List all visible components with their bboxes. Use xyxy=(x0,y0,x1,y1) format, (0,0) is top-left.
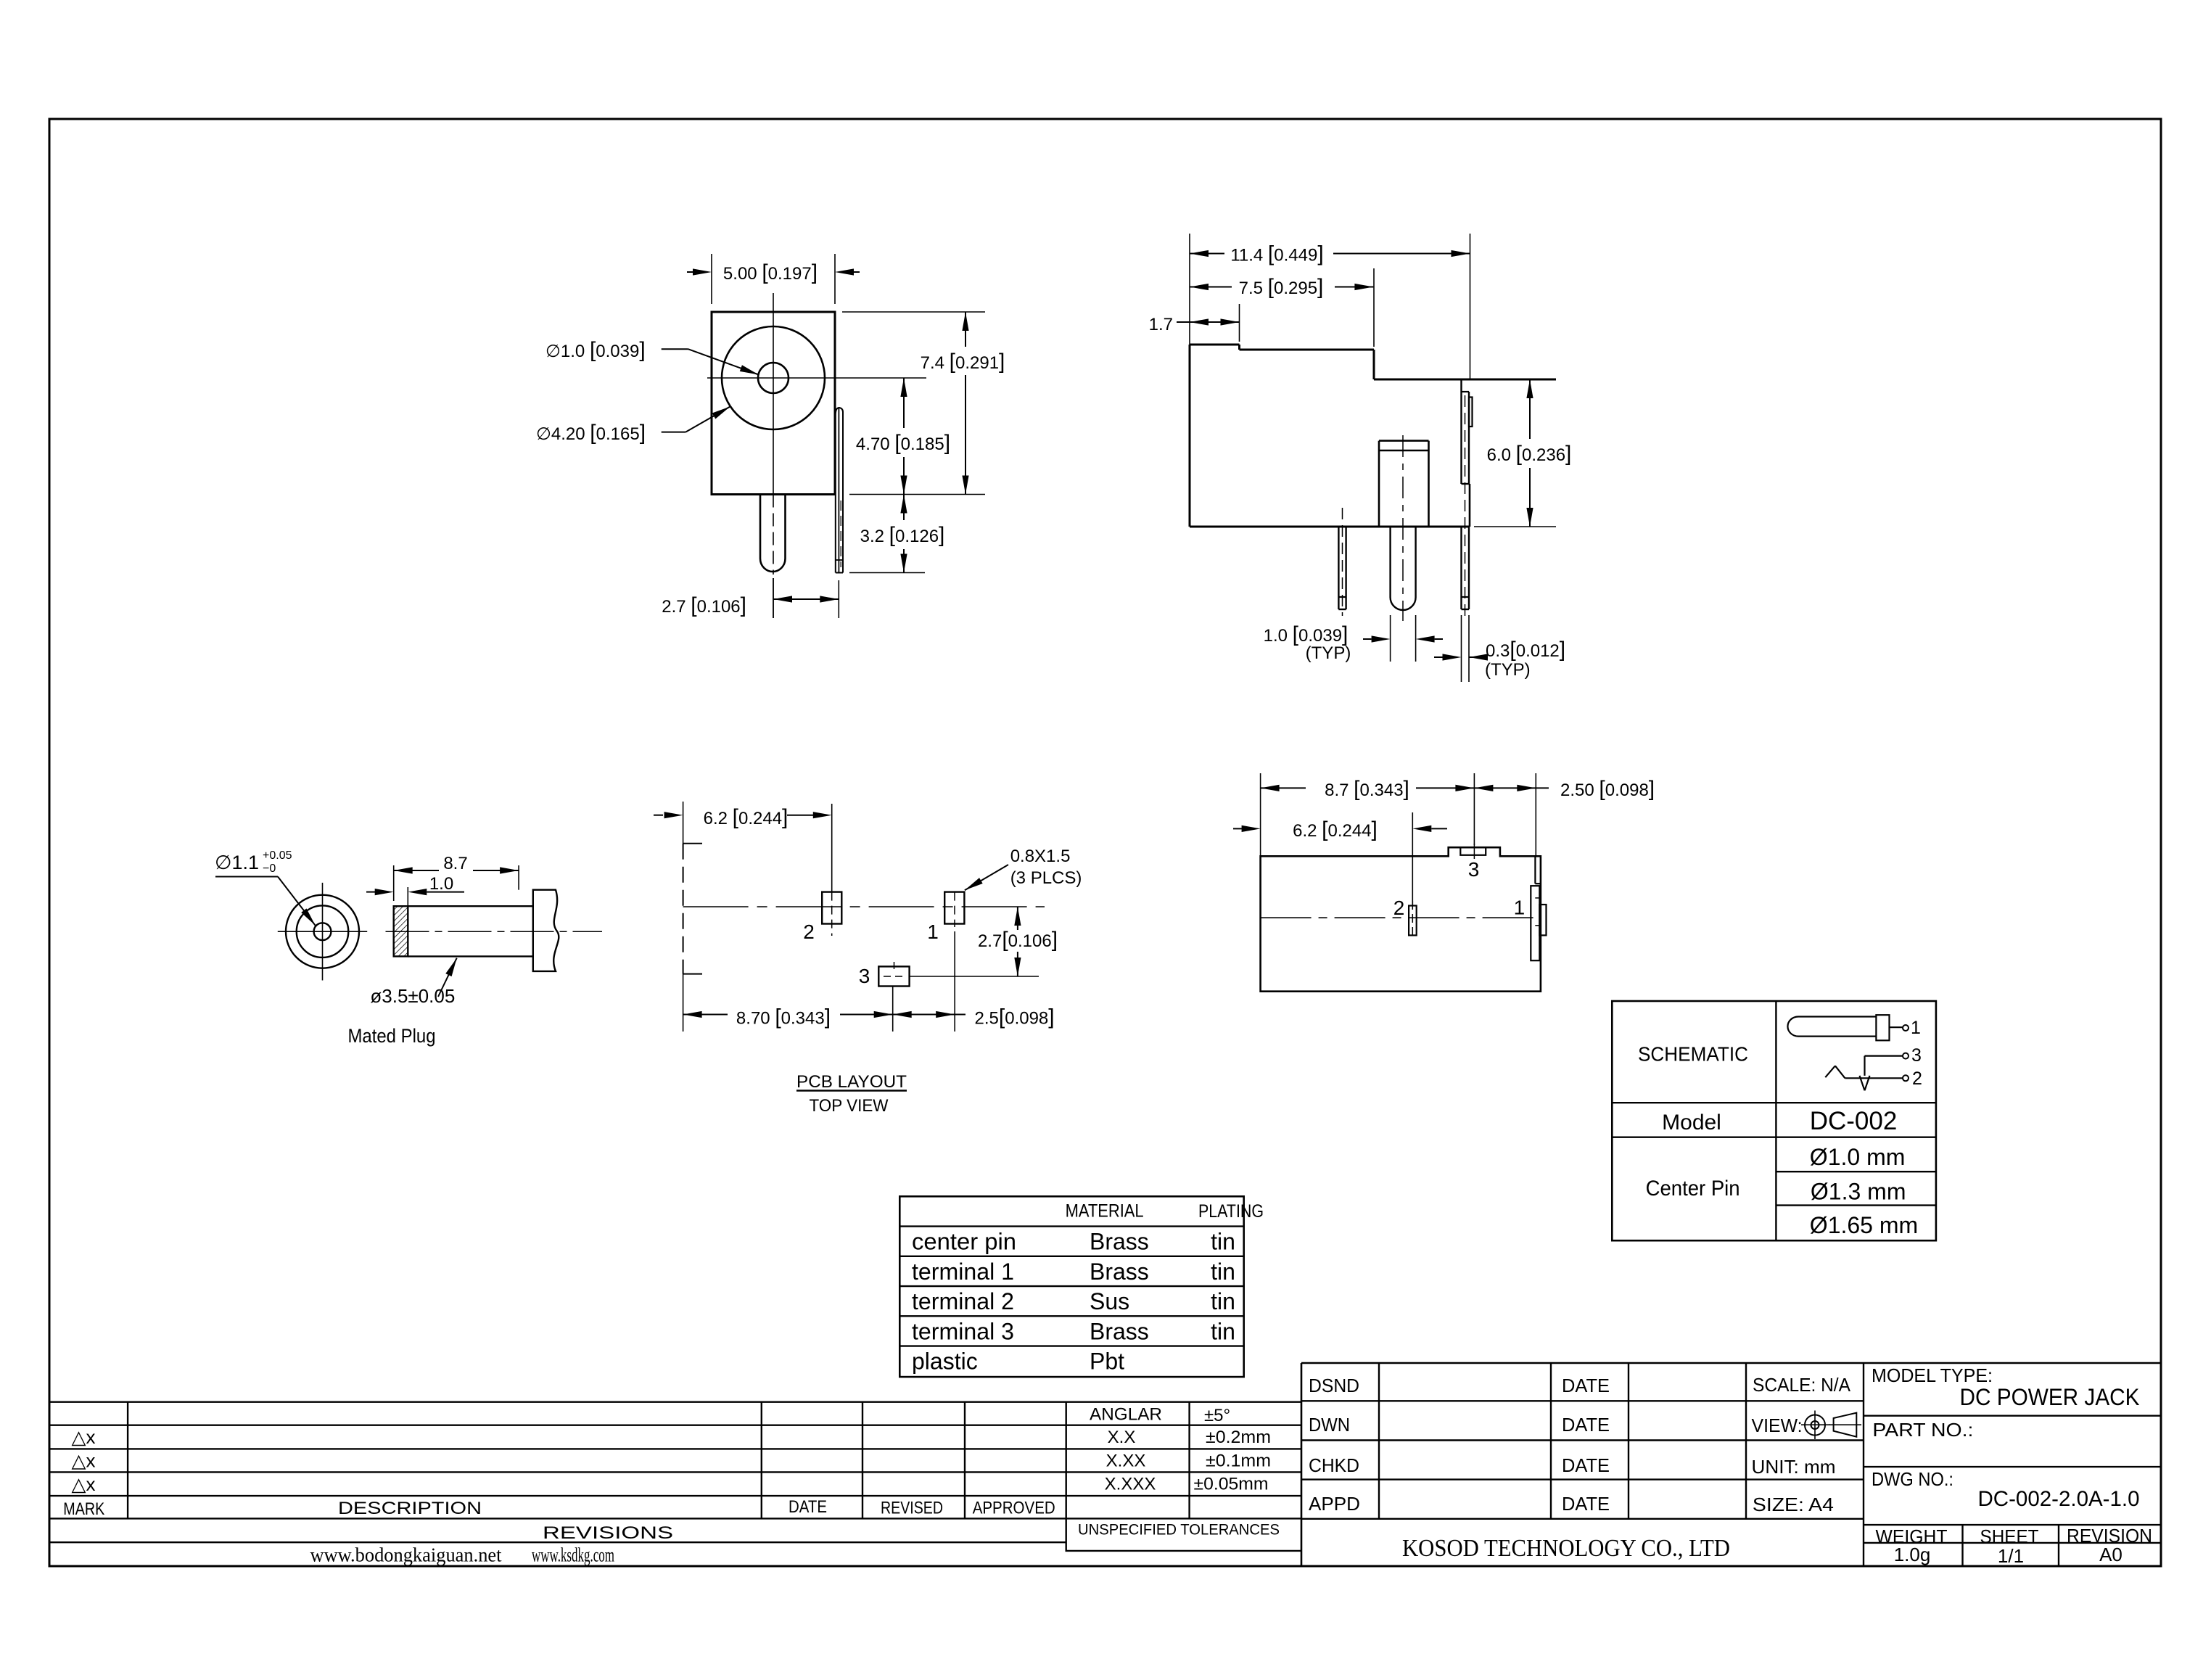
svg-text:DESCRIPTION: DESCRIPTION xyxy=(338,1499,482,1518)
svg-text:www.ksdkg.com: www.ksdkg.com xyxy=(532,1544,614,1566)
svg-text:1.0: 1.0 xyxy=(429,874,453,894)
bottom view dimension 2.50 [0.098] xyxy=(1474,773,1655,856)
mated plug label xyxy=(348,1025,436,1047)
svg-text:±5°: ±5° xyxy=(1204,1406,1230,1425)
schematic symbol plug barrel xyxy=(1787,1015,1889,1040)
svg-text:1: 1 xyxy=(1514,897,1526,919)
svg-text:plastic: plastic xyxy=(912,1348,978,1375)
svg-text:1/1: 1/1 xyxy=(1998,1545,2024,1567)
svg-text:MODEL TYPE:: MODEL TYPE: xyxy=(1872,1364,1993,1386)
svg-text:DC-002-2.0A-1.0: DC-002-2.0A-1.0 xyxy=(1978,1487,2140,1511)
svg-text:X.XXX: X.XXX xyxy=(1105,1475,1156,1494)
revision mark triangle row 1 xyxy=(72,1426,96,1448)
svg-text:(TYP): (TYP) xyxy=(1306,643,1351,663)
leader diameter 1.0 [0.039] xyxy=(545,338,759,378)
svg-text:CHKD: CHKD xyxy=(1309,1454,1359,1476)
svg-text:2.5[0.098]: 2.5[0.098] xyxy=(975,1005,1055,1029)
pcb pad 1 xyxy=(944,892,964,1032)
svg-text:∅1.1: ∅1.1 xyxy=(215,852,259,873)
svg-text:1.0g: 1.0g xyxy=(1894,1544,1931,1565)
svg-text:tin: tin xyxy=(1211,1288,1235,1314)
front view center pin xyxy=(760,495,786,572)
svg-text:8.7: 8.7 xyxy=(443,854,467,873)
svg-text:REVISIONS: REVISIONS xyxy=(543,1523,673,1543)
svg-text:±0.2mm: ±0.2mm xyxy=(1206,1428,1271,1447)
svg-text:X.X: X.X xyxy=(1108,1428,1136,1447)
materials table headers xyxy=(1066,1201,1264,1222)
side view body outline xyxy=(1190,345,1556,527)
svg-text:△x: △x xyxy=(72,1426,96,1448)
svg-text:MATERIAL: MATERIAL xyxy=(1066,1201,1144,1222)
pcb horizontal centerline xyxy=(683,906,1045,907)
revisions table headers xyxy=(63,1497,1055,1543)
svg-text:DWN: DWN xyxy=(1309,1414,1350,1436)
svg-text:2: 2 xyxy=(803,921,815,943)
front view outer circle d4.20 xyxy=(722,326,825,429)
svg-text:tin: tin xyxy=(1211,1229,1235,1255)
side view left pin xyxy=(1338,508,1346,616)
dimension 7.5 [0.295] xyxy=(1190,268,1374,347)
front view horizontal centerline xyxy=(707,377,926,379)
svg-text:tin: tin xyxy=(1211,1318,1235,1344)
svg-text:2.50 [0.098]: 2.50 [0.098] xyxy=(1560,777,1655,801)
bottom view terminal 1 label xyxy=(1514,897,1526,919)
pcb layout title xyxy=(796,1072,907,1116)
front view body outline xyxy=(712,312,835,495)
title block model type xyxy=(1872,1364,2140,1511)
dimension 1.7 xyxy=(1149,304,1240,342)
svg-text:DATE: DATE xyxy=(1562,1375,1610,1396)
bottom view dimension 8.7 [0.343] xyxy=(1261,773,1475,856)
pcb dimension 2.7 [0.106] xyxy=(910,907,1058,976)
revisions table lines xyxy=(49,1402,1301,1551)
svg-text:4.70 [0.185]: 4.70 [0.185] xyxy=(856,431,950,455)
title block scale section xyxy=(1752,1374,1851,1515)
svg-text:Brass: Brass xyxy=(1090,1259,1149,1285)
svg-text:UNSPECIFIED TOLERANCES: UNSPECIFIED TOLERANCES xyxy=(1078,1522,1280,1539)
svg-text:1.7: 1.7 xyxy=(1149,315,1173,334)
svg-text:PCB LAYOUT: PCB LAYOUT xyxy=(796,1072,907,1092)
pcb pad 2 label xyxy=(803,921,815,943)
schematic symbol pin 1 xyxy=(1890,1018,1921,1038)
view projection symbol xyxy=(1801,1411,1861,1440)
mated plug barrel side view xyxy=(386,890,603,971)
svg-text:0.8X1.5: 0.8X1.5 xyxy=(1010,847,1071,866)
front view side terminal tab xyxy=(836,408,843,573)
svg-text:Ø1.65 mm: Ø1.65 mm xyxy=(1810,1212,1918,1238)
svg-text:1: 1 xyxy=(1911,1018,1921,1038)
svg-text:tin: tin xyxy=(1211,1259,1235,1285)
dimension 4.70 [0.185] xyxy=(856,378,950,495)
svg-text:DATE: DATE xyxy=(1562,1414,1610,1436)
pcb dimension 2.5 [0.098] xyxy=(893,1005,1055,1029)
svg-text:6.2 [0.244]: 6.2 [0.244] xyxy=(1293,818,1378,841)
svg-text:+0.05: +0.05 xyxy=(263,849,292,862)
side view terminal 1 strip xyxy=(1462,379,1473,527)
mated plug leader diameter 1.1 +0.05/-0 xyxy=(215,849,318,928)
bottom view terminal 3 pad xyxy=(1460,844,1486,859)
svg-text:3: 3 xyxy=(1468,858,1480,881)
svg-text:KOSOD TECHNOLOGY CO., LTD: KOSOD TECHNOLOGY CO., LTD xyxy=(1402,1535,1730,1562)
svg-text:2.7[0.106]: 2.7[0.106] xyxy=(978,928,1058,952)
svg-text:8.70 [0.343]: 8.70 [0.343] xyxy=(736,1005,831,1029)
dimension 3.2 [0.126] xyxy=(849,495,944,573)
company name xyxy=(1402,1535,1730,1562)
mated plug leader diameter 3.5 xyxy=(370,957,459,1007)
leader diameter 4.20 [0.165] xyxy=(536,404,732,445)
svg-text:SCALE: N/A: SCALE: N/A xyxy=(1753,1374,1851,1396)
svg-text:ANGLAR: ANGLAR xyxy=(1090,1405,1162,1425)
svg-text:APPROVED: APPROVED xyxy=(973,1499,1055,1518)
title block weight sheet revision xyxy=(1876,1525,2153,1567)
svg-text:A0: A0 xyxy=(2099,1544,2123,1565)
dimension 5.00 [0.197] xyxy=(687,254,860,304)
svg-text:∅1.0 [0.039]: ∅1.0 [0.039] xyxy=(545,338,646,362)
mated plug dimension 8.7 xyxy=(394,854,519,901)
svg-text:APPD: APPD xyxy=(1309,1493,1360,1515)
pcb dimension 8.70 [0.343] xyxy=(683,974,893,1032)
svg-text:8.7 [0.343]: 8.7 [0.343] xyxy=(1325,777,1409,801)
front view vertical centerline xyxy=(773,293,774,618)
svg-text:Model: Model xyxy=(1662,1111,1721,1135)
side view right pin xyxy=(1462,395,1470,616)
schematic symbol pin 2 xyxy=(1825,1066,1922,1089)
svg-text:5.00 [0.197]: 5.00 [0.197] xyxy=(723,260,818,284)
pcb pad 2 xyxy=(822,804,841,936)
pcb pad note 0.8X1.5 (3 PLCS) xyxy=(963,847,1082,893)
dimension 0.3 [0.012] (TYP) xyxy=(1434,615,1565,682)
schematic symbol pin 3 xyxy=(1860,1045,1922,1090)
svg-text:DWG NO.:: DWG NO.: xyxy=(1872,1468,1953,1490)
svg-text:3: 3 xyxy=(1911,1045,1922,1066)
svg-text:TOP VIEW: TOP VIEW xyxy=(810,1096,889,1116)
revision mark triangle row 3 xyxy=(72,1473,96,1495)
svg-text:SCHEMATIC: SCHEMATIC xyxy=(1638,1043,1748,1066)
svg-text:Ø1.0 mm: Ø1.0 mm xyxy=(1810,1144,1906,1170)
pcb dimension 6.2 [0.244] xyxy=(654,802,832,844)
svg-text:www.bodongkaiguan.net: www.bodongkaiguan.net xyxy=(310,1544,502,1566)
pcb pad 3 xyxy=(878,962,909,1032)
svg-text:DC-002: DC-002 xyxy=(1810,1107,1898,1135)
svg-text:Mated Plug: Mated Plug xyxy=(348,1025,436,1047)
svg-text:DATE: DATE xyxy=(1562,1454,1610,1476)
dimension 1.0 [0.039] (TYP) xyxy=(1264,615,1443,663)
svg-text:∅4.20 [0.165]: ∅4.20 [0.165] xyxy=(536,421,646,445)
svg-text:±0.1mm: ±0.1mm xyxy=(1206,1451,1271,1470)
svg-text:3: 3 xyxy=(859,965,870,987)
svg-text:△x: △x xyxy=(72,1473,96,1495)
bottom view terminal 1 xyxy=(1531,856,1546,960)
materials table rows xyxy=(912,1229,1235,1375)
svg-text:±0.05mm: ±0.05mm xyxy=(1194,1475,1269,1494)
bottom view terminal 3 label xyxy=(1468,858,1480,881)
svg-text:3.2 [0.126]: 3.2 [0.126] xyxy=(860,523,945,547)
schematic table box xyxy=(1612,1001,1936,1240)
svg-text:REVISED: REVISED xyxy=(881,1499,943,1518)
dimension 2.7 [0.106] xyxy=(662,578,839,618)
side view center pin xyxy=(1379,435,1429,621)
svg-text:Pbt: Pbt xyxy=(1090,1348,1124,1375)
svg-text:DATE: DATE xyxy=(789,1497,827,1517)
schematic table labels xyxy=(1638,1043,1918,1239)
svg-text:MARK: MARK xyxy=(63,1499,104,1519)
tolerance table labels xyxy=(1078,1405,1280,1539)
svg-text:Center Pin: Center Pin xyxy=(1646,1177,1740,1201)
svg-text:DATE: DATE xyxy=(1562,1493,1610,1515)
svg-text:DC POWER JACK: DC POWER JACK xyxy=(1960,1384,2140,1410)
svg-text:△x: △x xyxy=(72,1450,96,1472)
svg-text:Ø1.3 mm: Ø1.3 mm xyxy=(1811,1179,1906,1205)
svg-text:(TYP): (TYP) xyxy=(1485,660,1531,680)
svg-text:Brass: Brass xyxy=(1090,1229,1149,1255)
pcb board edge dashed outline xyxy=(683,844,702,974)
svg-text:6.2 [0.244]: 6.2 [0.244] xyxy=(704,805,789,829)
bottom view terminal 2 label xyxy=(1393,897,1405,919)
title block lines xyxy=(1301,1363,2161,1566)
svg-text:terminal 1: terminal 1 xyxy=(912,1259,1014,1285)
svg-text:PART NO.:: PART NO.: xyxy=(1872,1419,1973,1441)
mated plug dimension 1.0 xyxy=(366,874,464,906)
svg-text:11.4 [0.449]: 11.4 [0.449] xyxy=(1230,242,1323,266)
svg-text:(3 PLCS): (3 PLCS) xyxy=(1010,868,1082,888)
dimension 6.0 [0.236] xyxy=(1474,379,1571,527)
svg-text:7.4 [0.291]: 7.4 [0.291] xyxy=(921,350,1005,374)
pcb pad 3 label xyxy=(859,965,870,987)
front view center pin hole d1.0 xyxy=(758,363,789,393)
revision mark triangle row 2 xyxy=(72,1450,96,1472)
svg-text:SIZE: A4: SIZE: A4 xyxy=(1753,1494,1834,1515)
svg-text:Brass: Brass xyxy=(1090,1318,1149,1344)
bottom view terminal 2 xyxy=(1409,901,1417,940)
mated plug end view circles xyxy=(278,883,367,981)
bottom view centerline xyxy=(1261,917,1536,918)
svg-text:UNIT: mm: UNIT: mm xyxy=(1752,1456,1836,1478)
svg-text:Sus: Sus xyxy=(1090,1288,1129,1314)
svg-text:0.3[0.012]: 0.3[0.012] xyxy=(1486,638,1565,662)
svg-text:6.0 [0.236]: 6.0 [0.236] xyxy=(1487,442,1572,466)
svg-text:1: 1 xyxy=(927,921,939,943)
bottom view dimension 6.2 [0.244] xyxy=(1233,812,1447,906)
svg-text:DSND: DSND xyxy=(1309,1375,1359,1396)
svg-text:terminal 2: terminal 2 xyxy=(912,1288,1014,1314)
title block signature labels xyxy=(1309,1375,1610,1515)
svg-text:2: 2 xyxy=(1393,897,1405,919)
svg-text:2.7 [0.106]: 2.7 [0.106] xyxy=(662,593,746,617)
svg-text:center pin: center pin xyxy=(912,1229,1016,1255)
dimension 7.4 [0.291] xyxy=(842,312,1005,495)
svg-text:−0: −0 xyxy=(263,862,276,875)
svg-text:2: 2 xyxy=(1912,1068,1922,1089)
dimension 11.4 [0.449] xyxy=(1190,234,1470,379)
website row xyxy=(310,1544,615,1566)
svg-text:SHEET: SHEET xyxy=(1980,1525,2039,1547)
materials table box xyxy=(899,1196,1243,1377)
svg-text:7.5 [0.295]: 7.5 [0.295] xyxy=(1239,275,1324,299)
svg-text:PLATING: PLATING xyxy=(1198,1201,1264,1222)
pcb pad 1 label xyxy=(927,921,939,943)
svg-text:terminal 3: terminal 3 xyxy=(912,1318,1014,1344)
svg-text:X.XX: X.XX xyxy=(1106,1451,1146,1470)
svg-text:VIEW:: VIEW: xyxy=(1752,1415,1803,1436)
bottom view body outline xyxy=(1261,847,1541,992)
